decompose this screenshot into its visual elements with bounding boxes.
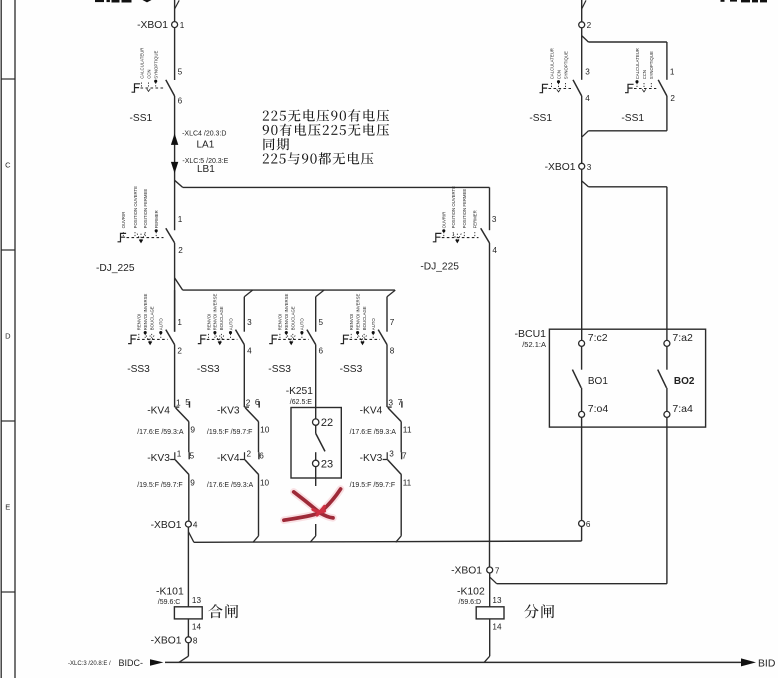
svg-text:1: 1 <box>178 215 183 224</box>
svg-text:AUTO: AUTO <box>228 318 233 331</box>
svg-text:CCN: CCN <box>556 70 561 79</box>
svg-text:-KV4: -KV4 <box>147 405 170 416</box>
svg-text:CALCULATEUR: CALCULATEUR <box>549 48 554 79</box>
svg-text:-SS1: -SS1 <box>621 113 644 124</box>
svg-text:/59.6:D: /59.6:D <box>459 599 482 606</box>
svg-text:7:a2: 7:a2 <box>672 332 693 344</box>
svg-text:2: 2 <box>246 398 251 408</box>
svg-text:-XBO1: -XBO1 <box>151 520 182 531</box>
svg-text:-KV4: -KV4 <box>217 453 240 464</box>
actuator linkage -SS1 (CALCULATEUR/CCN/SYNOPTIQUE) <box>132 48 164 93</box>
wire bus tap diagonal <box>387 290 395 297</box>
red X scribble annotation <box>284 489 341 520</box>
svg-text:8: 8 <box>390 347 395 356</box>
svg-text:POSITION OUVERTE: POSITION OUVERTE <box>133 186 138 229</box>
svg-text:5: 5 <box>178 67 183 76</box>
svg-text:BO2: BO2 <box>674 376 695 387</box>
svg-text:2: 2 <box>587 21 592 30</box>
wire <box>174 243 176 332</box>
wire <box>386 297 388 332</box>
svg-text:-XBO1: -XBO1 <box>545 162 576 173</box>
svg-text:4: 4 <box>247 347 252 356</box>
svg-text:D: D <box>5 332 11 341</box>
svg-text:6: 6 <box>259 451 264 460</box>
relay box -K251 <box>291 408 341 479</box>
svg-text:5: 5 <box>185 397 190 407</box>
switch -SS3 contact 7-8 <box>378 318 395 356</box>
svg-text:RENVOI INVERSE: RENVOI INVERSE <box>213 294 218 331</box>
svg-text:7: 7 <box>390 318 395 327</box>
terminal 7:o4 <box>579 403 609 418</box>
svg-text:-SS3: -SS3 <box>268 364 291 375</box>
svg-text:7: 7 <box>398 397 403 407</box>
svg-text:-KV4: -KV4 <box>360 405 383 416</box>
svg-text:/62.5:E: /62.5:E <box>290 399 313 406</box>
wire diagonal to bus <box>396 536 402 542</box>
svg-text:1: 1 <box>180 21 185 30</box>
svg-text:RENVOI INVERSE: RENVOI INVERSE <box>143 294 148 331</box>
svg-text:3: 3 <box>389 450 394 459</box>
svg-text:AUTO: AUTO <box>300 318 305 331</box>
terminal 22 <box>313 417 334 429</box>
svg-text:RENVOI: RENVOI <box>206 314 211 330</box>
switch -SS1 contact 3-4 <box>573 80 582 96</box>
arrow BID <box>741 658 756 666</box>
svg-text:-K101: -K101 <box>156 586 184 597</box>
svg-text:-KV3: -KV3 <box>147 453 170 464</box>
svg-text:POSITION FERMEE: POSITION FERMEE <box>462 189 467 229</box>
svg-text:/19.5:F /59.7:F: /19.5:F /59.7:F <box>350 482 396 489</box>
label 合闸 <box>209 604 239 618</box>
coil -K101 <box>174 607 202 619</box>
actuator linkage -SS1 middle <box>540 48 572 93</box>
svg-text:6: 6 <box>319 347 324 356</box>
contact BO1 <box>572 346 608 411</box>
wire split to BCU contacts <box>582 169 667 340</box>
wire <box>666 417 668 583</box>
svg-text:4: 4 <box>492 246 497 255</box>
wire <box>243 297 245 332</box>
wire top-right entry with hook <box>582 0 586 22</box>
actuator linkage -DJ_225 left <box>118 186 164 244</box>
wire to bottom bus <box>179 643 189 663</box>
terminal -XBO1:2 <box>579 21 592 30</box>
svg-text:CALCULATEUR: CALCULATEUR <box>635 48 640 79</box>
svg-text:POSITION FERMEE: POSITION FERMEE <box>143 189 148 229</box>
svg-text:7:a4: 7:a4 <box>672 403 693 415</box>
wire <box>174 96 176 230</box>
wire diagonal to bus <box>253 536 259 542</box>
svg-text:FERMER: FERMER <box>473 210 478 228</box>
wire bus tap diagonal <box>316 290 324 297</box>
contact -KV4 (1-5-9) branch1 <box>175 345 196 435</box>
svg-text:BOUCLAGE: BOUCLAGE <box>362 306 367 330</box>
wire diagonal to bus <box>310 536 316 542</box>
annotation 90有电压225无电压 <box>263 124 389 136</box>
svg-text:2: 2 <box>178 246 183 255</box>
wire branch to H4 <box>490 573 667 607</box>
svg-text:-SS1: -SS1 <box>130 113 153 124</box>
svg-text:-K102: -K102 <box>457 586 485 597</box>
bottom bus wire BID <box>165 661 741 663</box>
wire diagonal to bus <box>188 532 194 543</box>
svg-text:/19.5:F /59.7:F: /19.5:F /59.7:F <box>207 429 253 436</box>
svg-text:/17.6:E /59.3:A: /17.6:E /59.3:A <box>350 429 397 436</box>
svg-text:-SS1: -SS1 <box>529 113 552 124</box>
svg-text:3: 3 <box>585 67 590 76</box>
svg-text:14: 14 <box>492 622 502 631</box>
svg-text:6: 6 <box>178 96 183 105</box>
switch -SS1 contact 5-6 <box>166 80 175 96</box>
terminal 7:a4 <box>664 403 693 418</box>
svg-text:BID: BID <box>758 658 775 669</box>
svg-text:/59.6:C: /59.6:C <box>158 599 181 606</box>
svg-text:5: 5 <box>190 451 195 460</box>
wire <box>315 524 317 536</box>
svg-text:-XBO1: -XBO1 <box>137 20 168 31</box>
svg-text:OUVRIR: OUVRIR <box>442 212 447 229</box>
svg-text:9: 9 <box>190 478 195 487</box>
terminal 7:c2 <box>579 332 608 347</box>
wire SS1 pair merge <box>582 96 667 137</box>
svg-text:4: 4 <box>585 94 590 103</box>
wire <box>581 137 583 163</box>
svg-text:2: 2 <box>670 94 675 103</box>
svg-text:-XBO1: -XBO1 <box>151 635 182 646</box>
svg-text:-K251: -K251 <box>286 386 314 397</box>
switch -SS3 contact 5-6 <box>307 318 324 356</box>
cut-off top arrow fragment <box>143 0 152 2</box>
svg-text:SYNOPTIQUE: SYNOPTIQUE <box>154 50 159 78</box>
annotation 225与90都无电压 <box>263 152 374 164</box>
svg-text:RENVOI: RENVOI <box>137 314 142 330</box>
wire <box>187 619 189 637</box>
wire <box>315 297 317 332</box>
actuator linkage -SS3 <box>198 294 238 346</box>
cut-off top bus label right fragment <box>721 0 768 2</box>
svg-text:OUVRIR: OUVRIR <box>121 212 126 229</box>
svg-text:BO1: BO1 <box>588 376 608 387</box>
svg-text:3: 3 <box>388 398 393 408</box>
svg-text:5: 5 <box>319 318 324 327</box>
terminal -XBO1:7 <box>451 566 500 577</box>
wire to K101 <box>187 527 189 607</box>
svg-text:-SS3: -SS3 <box>197 364 220 375</box>
label 分闸 <box>524 604 554 618</box>
wire to bottom bus <box>484 619 490 663</box>
actuator linkage -SS3 <box>269 294 309 346</box>
svg-text:-SS3: -SS3 <box>127 364 150 375</box>
svg-text:8: 8 <box>193 636 198 645</box>
switch -DJ_225 contact 3-4 <box>481 187 490 243</box>
svg-text:-BCU1: -BCU1 <box>514 328 546 340</box>
svg-text:BOUCLAGE: BOUCLAGE <box>219 306 224 330</box>
svg-text:C: C <box>5 161 11 170</box>
wire <box>174 28 176 80</box>
contact -KV4 (2-6-10) branch2 <box>240 422 270 488</box>
svg-text:11: 11 <box>403 424 412 434</box>
device box -BCU1 <box>549 329 705 427</box>
svg-text:-XLC:3 /20.8:E /: -XLC:3 /20.8:E / <box>68 661 111 667</box>
wire <box>489 243 491 567</box>
wire <box>258 475 260 536</box>
contact blade K251 <box>316 425 325 460</box>
svg-text:-SS3: -SS3 <box>340 364 363 375</box>
svg-text:3: 3 <box>587 163 592 172</box>
wire split to SS1 pair <box>582 28 667 80</box>
cut-off top bus label left fragment <box>95 0 132 3</box>
svg-text:-KV3: -KV3 <box>217 405 240 416</box>
terminal 23 <box>313 458 334 470</box>
svg-text:-DJ_225: -DJ_225 <box>96 263 135 274</box>
svg-text:LA1: LA1 <box>197 139 215 150</box>
terminal -XBO1:1 <box>137 20 185 31</box>
wire <box>174 290 176 332</box>
svg-text:/17.6:E /59.3:A: /17.6:E /59.3:A <box>207 482 254 489</box>
svg-text:/52.1:A: /52.1:A <box>522 340 546 349</box>
wire branch to H1 <box>175 180 490 187</box>
svg-text:-DJ_225: -DJ_225 <box>420 261 459 272</box>
svg-text:2: 2 <box>247 450 252 459</box>
svg-text:10: 10 <box>260 478 270 487</box>
svg-text:6: 6 <box>255 397 260 407</box>
terminal -XBO1:8 <box>151 635 198 646</box>
svg-text:23: 23 <box>321 458 333 470</box>
wire <box>315 467 317 486</box>
svg-text:FERMER: FERMER <box>154 210 159 228</box>
svg-text:11: 11 <box>403 478 412 487</box>
svg-text:3: 3 <box>247 318 252 327</box>
svg-text:7: 7 <box>495 566 500 575</box>
svg-text:7:c2: 7:c2 <box>588 332 608 344</box>
svg-text:E: E <box>5 503 10 512</box>
svg-text:1: 1 <box>176 398 181 408</box>
svg-text:22: 22 <box>321 417 333 429</box>
svg-text:RENVOI INVERSE: RENVOI INVERSE <box>284 294 289 331</box>
svg-text:9: 9 <box>190 424 195 434</box>
wire split to SS3 bus <box>175 278 395 290</box>
svg-text:1: 1 <box>670 67 675 76</box>
svg-text:SYNOPTIQUE: SYNOPTIQUE <box>649 51 654 79</box>
svg-text:RENVOI INVERSE: RENVOI INVERSE <box>355 294 360 331</box>
switch -SS3 contact 3-4 <box>236 318 253 356</box>
svg-text:2: 2 <box>177 347 182 356</box>
svg-text:SYNOPTIQUE: SYNOPTIQUE <box>563 51 568 79</box>
arrow into bus <box>150 659 164 666</box>
svg-text:-XLC4 /20.3:D: -XLC4 /20.3:D <box>182 131 226 138</box>
terminal -XBO1:3 <box>545 162 592 173</box>
actuator linkage -SS3 <box>341 294 381 346</box>
svg-text:13: 13 <box>492 596 502 605</box>
contact BO2 <box>658 346 695 411</box>
drawing border frame column <box>1 0 15 678</box>
svg-text:BOUCLAGE: BOUCLAGE <box>291 306 296 330</box>
wire <box>315 345 317 419</box>
svg-text:CALCULATEUR: CALCULATEUR <box>139 48 144 79</box>
svg-text:RENVOI: RENVOI <box>278 314 283 330</box>
annotation 同期 <box>263 138 289 150</box>
svg-text:10: 10 <box>260 424 270 434</box>
svg-text:13: 13 <box>192 596 202 605</box>
actuator linkage -SS3 <box>128 294 168 346</box>
svg-text:14: 14 <box>192 622 202 631</box>
svg-text:BOUCLAGE: BOUCLAGE <box>150 306 155 330</box>
terminal -XBO1:4 <box>151 520 198 531</box>
svg-text:CCN: CCN <box>642 70 647 79</box>
svg-text:LB1: LB1 <box>197 164 215 175</box>
svg-text:4: 4 <box>193 521 198 530</box>
wire bus tap diagonal <box>244 290 252 297</box>
svg-text:CCN: CCN <box>146 69 151 78</box>
contact -KV4 (3-7-11) branch4 <box>387 345 412 435</box>
arrow LA1 outgoing signal <box>171 133 178 145</box>
wire <box>581 417 583 520</box>
actuator linkage -SS1 right <box>625 48 656 93</box>
switch -SS1 contact 1-2 <box>658 80 667 96</box>
terminal 7:a2 <box>664 332 693 347</box>
wire <box>400 475 402 536</box>
switch -DJ_225 contact 1-2 <box>166 228 175 243</box>
annotation 225无电压90有电压 <box>263 109 389 121</box>
svg-text:6: 6 <box>586 520 591 529</box>
svg-text:3: 3 <box>492 215 497 224</box>
svg-text:RENVOI: RENVOI <box>349 314 354 330</box>
svg-text:/19.5:F /59.7:F: /19.5:F /59.7:F <box>137 482 183 489</box>
switch -SS3 contact 1-2 <box>166 318 183 356</box>
svg-text:1: 1 <box>177 450 182 459</box>
contact -KV3 (2-6-10) branch2 <box>244 345 269 435</box>
wire <box>188 475 190 521</box>
wire top-left entry with hook <box>175 0 180 22</box>
svg-text:BIDC-: BIDC- <box>119 658 144 668</box>
svg-text:POSITION OUVERTE: POSITION OUVERTE <box>451 186 456 229</box>
contact -KV3 (1-5-9) branch1 <box>170 422 195 488</box>
svg-text:-XBO1: -XBO1 <box>451 566 482 577</box>
svg-text:AUTO: AUTO <box>159 318 164 331</box>
bus wire to node 6 <box>194 527 582 543</box>
arrow LB1 incoming signal <box>171 162 178 174</box>
coil -K102 <box>476 607 504 619</box>
contact -KV3 (3-7-11) branch4 <box>383 422 412 488</box>
svg-text:/17.6:E /59.3:A: /17.6:E /59.3:A <box>137 429 184 436</box>
svg-text:7:o4: 7:o4 <box>588 403 609 415</box>
svg-text:7: 7 <box>402 451 407 460</box>
actuator linkage -DJ_225 right <box>433 186 479 244</box>
svg-text:1: 1 <box>177 318 182 327</box>
terminal -XBO1:6 <box>579 520 591 529</box>
svg-text:AUTO: AUTO <box>371 318 376 331</box>
svg-text:-KV3: -KV3 <box>360 453 383 464</box>
